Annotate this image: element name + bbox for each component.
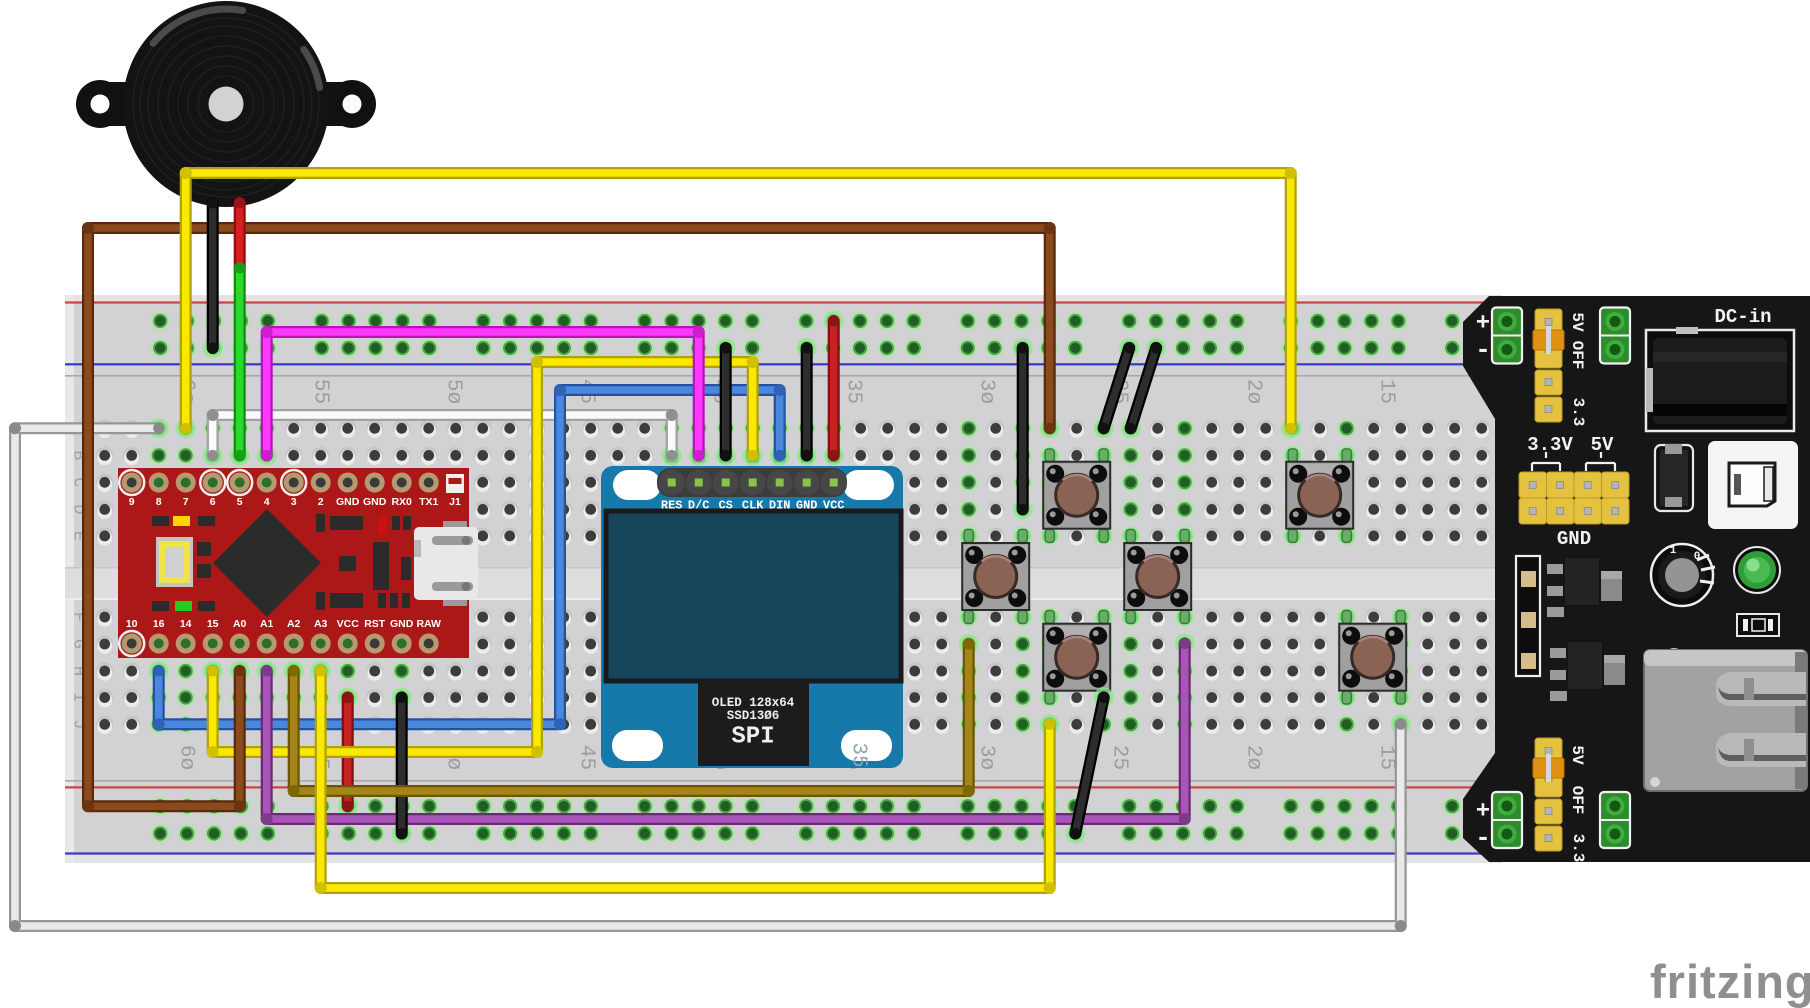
svg-text:SSD13Ø6: SSD13Ø6	[727, 709, 780, 723]
svg-text:-: -	[1475, 823, 1491, 853]
svg-text:4: 4	[264, 496, 270, 508]
svg-text:6: 6	[210, 496, 216, 508]
svg-text:15: 15	[207, 618, 219, 630]
svg-text:-: -	[1475, 335, 1491, 365]
svg-text:RAW: RAW	[416, 618, 441, 630]
svg-text:14: 14	[180, 618, 192, 630]
svg-text:GND: GND	[336, 496, 360, 508]
svg-text:fritzing: fritzing	[1650, 955, 1810, 1008]
svg-text:55: 55	[309, 379, 332, 404]
svg-text:5: 5	[237, 496, 243, 508]
svg-text:2: 2	[318, 496, 324, 508]
svg-text:8: 8	[156, 496, 162, 508]
svg-text:GND: GND	[1557, 528, 1591, 550]
svg-text:OFF: OFF	[1568, 786, 1586, 815]
svg-text:5ø: 5ø	[442, 379, 465, 404]
svg-text:3.3: 3.3	[1569, 834, 1587, 863]
svg-text:45: 45	[575, 745, 598, 770]
svg-text:25: 25	[1108, 745, 1131, 770]
svg-text:5V: 5V	[1568, 745, 1586, 765]
svg-text:6ø: 6ø	[175, 745, 198, 770]
svg-text:15: 15	[1375, 379, 1398, 404]
svg-text:+: +	[1476, 311, 1490, 338]
svg-text:10: 10	[126, 618, 138, 630]
svg-text:15: 15	[1375, 745, 1398, 770]
svg-text:3: 3	[291, 496, 297, 508]
svg-text:OLED 128x64: OLED 128x64	[712, 696, 795, 710]
svg-text:A2: A2	[287, 618, 301, 630]
svg-text:3.3: 3.3	[1569, 398, 1587, 427]
svg-text:A1: A1	[260, 618, 274, 630]
svg-text:5V: 5V	[1568, 312, 1586, 332]
svg-text:RX0: RX0	[391, 496, 412, 508]
svg-text:RST: RST	[364, 618, 386, 630]
svg-text:OFF: OFF	[1568, 341, 1586, 370]
svg-text:35: 35	[842, 379, 865, 404]
svg-text:J1: J1	[449, 496, 461, 508]
svg-text:3ø: 3ø	[975, 745, 998, 770]
svg-text:A3: A3	[314, 618, 328, 630]
svg-text:SPI: SPI	[731, 724, 774, 751]
svg-text:GND: GND	[390, 618, 414, 630]
svg-text:A0: A0	[233, 618, 247, 630]
svg-text:GND: GND	[363, 496, 387, 508]
svg-text:16: 16	[153, 618, 165, 630]
svg-text:0: 0	[1694, 551, 1701, 563]
svg-text:2ø: 2ø	[1242, 745, 1265, 770]
svg-text:3ø: 3ø	[975, 379, 998, 404]
svg-text:7: 7	[183, 496, 189, 508]
svg-text:+: +	[1476, 799, 1490, 826]
svg-text:35: 35	[847, 742, 870, 767]
svg-text:TX1: TX1	[419, 496, 438, 508]
svg-text:3.3V: 3.3V	[1527, 434, 1573, 456]
svg-text:2ø: 2ø	[1242, 379, 1265, 404]
svg-text:1: 1	[1670, 545, 1677, 557]
svg-text:9: 9	[129, 496, 135, 508]
svg-text:VCC: VCC	[337, 618, 360, 630]
svg-text:DC-in: DC-in	[1714, 306, 1771, 328]
svg-text:5V: 5V	[1591, 434, 1614, 456]
